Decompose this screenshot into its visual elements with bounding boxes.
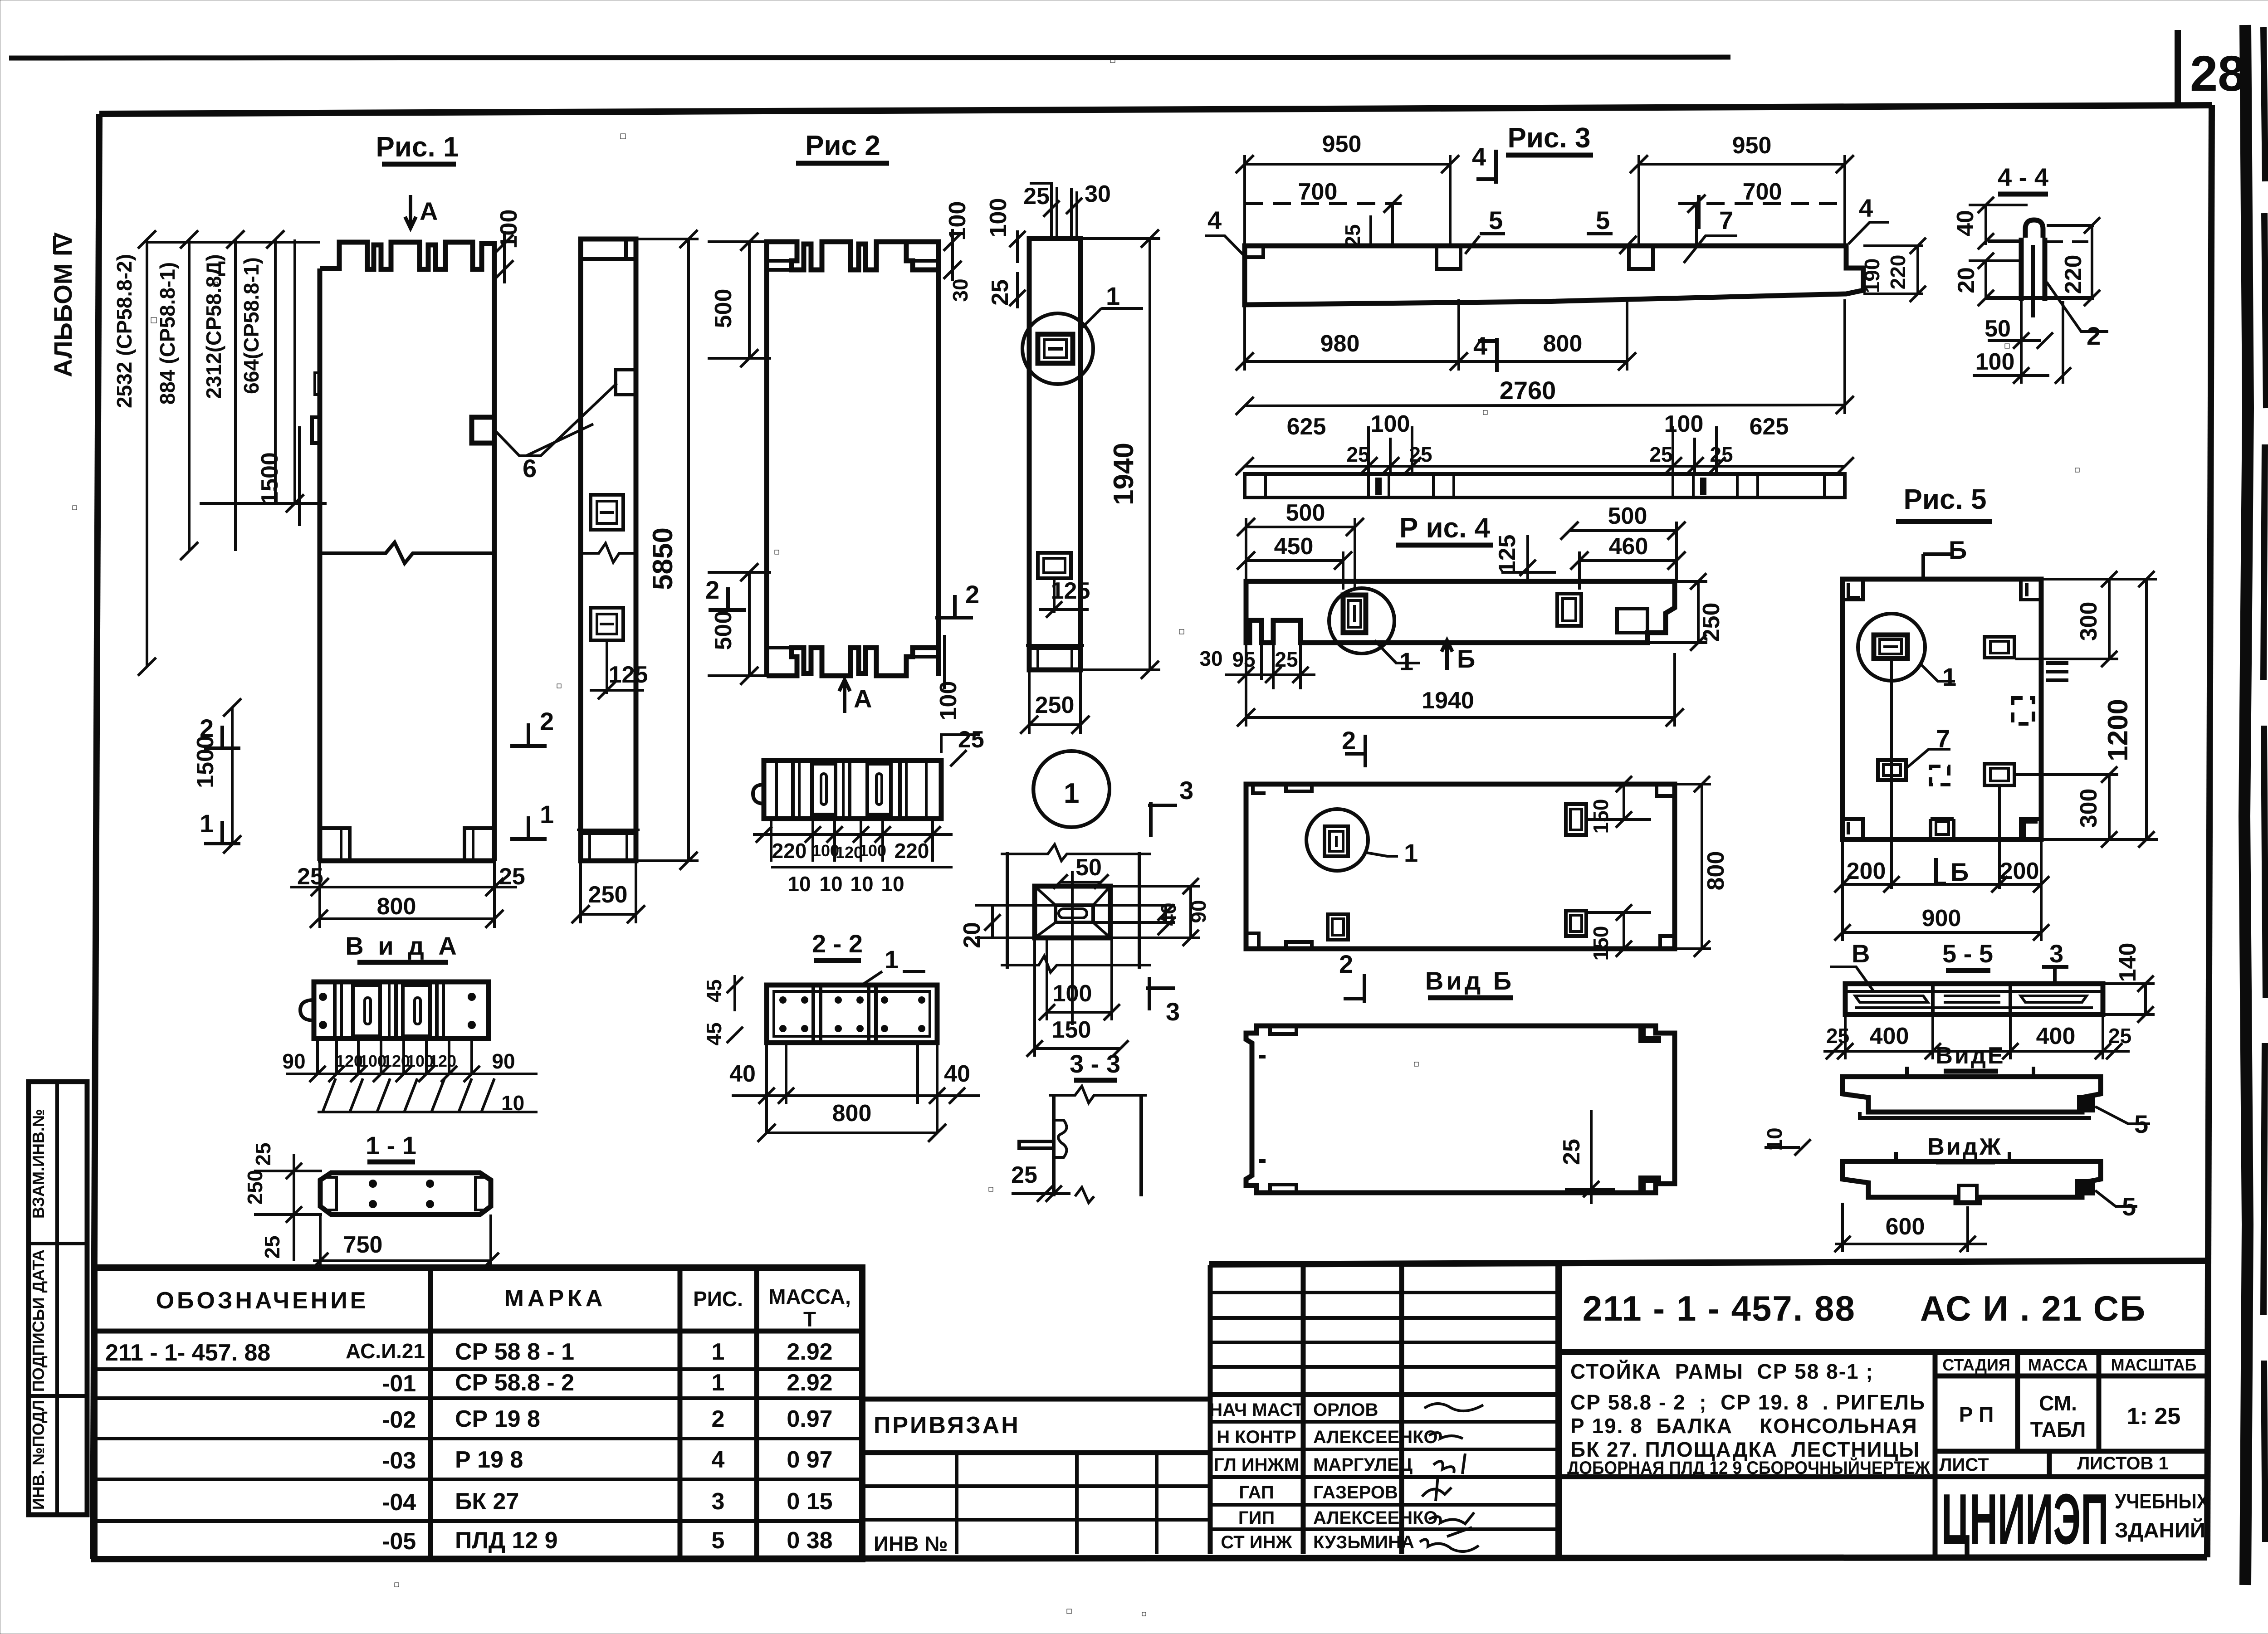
svg-text:Вид Б: Вид Б (1425, 966, 1514, 995)
svg-text:Рис. 5: Рис. 5 (1904, 484, 1987, 515)
vid Zh dim 600 (1834, 1203, 1987, 1252)
svg-text:211 - 1 - 457. 88 АС И .: 211 - 1 - 457. 88 АС И . 21 СБ (1583, 1288, 2146, 1328)
fig2 side circled plate (1022, 313, 1093, 384)
fig2 comb labels 220 100 120 100 220 (772, 839, 929, 863)
svg-text:Рис. 1: Рис. 1 (376, 132, 459, 163)
svg-text:2: 2 (540, 707, 554, 736)
svg-text:220: 220 (894, 839, 929, 863)
svg-text:3: 3 (1179, 776, 1193, 805)
svg-text:45: 45 (702, 1022, 726, 1045)
fig4 plan dim 150 bottom (1586, 904, 1651, 961)
fig2 dim label 25 rotated left of side (987, 272, 1026, 308)
svg-text:400: 400 (1870, 1023, 1909, 1049)
vid A plan detail (300, 982, 489, 1039)
fig1 dim 5850 (636, 230, 699, 870)
svg-text:25: 25 (1649, 443, 1672, 466)
fig1 section arrow A (405, 195, 438, 228)
top scan edge line (9, 57, 1730, 58)
fig5 plate top right (1984, 637, 2014, 658)
fig3 label 5 right with leader (1587, 206, 1637, 254)
fig2 dim label 30 top (1066, 181, 1111, 214)
svg-text:500: 500 (1608, 503, 1647, 529)
svg-text:Н КОНТР: Н КОНТР (1217, 1427, 1296, 1447)
svg-text:3 - 3: 3 - 3 (1070, 1049, 1120, 1078)
svg-text:6: 6 (523, 454, 537, 483)
svg-text:ЦНИИЭП: ЦНИИЭП (1941, 1479, 2109, 1559)
fig3 section mark 4 top middle (1472, 142, 1496, 184)
svg-text:ГИП: ГИП (1238, 1508, 1275, 1528)
fig1 break line (320, 542, 494, 563)
fig3 underside strip (1245, 474, 1845, 498)
svg-text:Б: Б (1950, 858, 1969, 886)
svg-text:25: 25 (958, 727, 984, 753)
fig4 plan plate bottom right (1566, 911, 1586, 936)
fig4 circled plate (1329, 588, 1394, 654)
svg-text:МАРГУЛЕЦ: МАРГУЛЕЦ (1313, 1455, 1413, 1475)
fig2 dim 100 top right (943, 201, 971, 281)
svg-text:40: 40 (729, 1061, 756, 1087)
right scan bar broken (2263, 27, 2266, 1542)
fig4 dim 450 left (1237, 518, 1355, 590)
svg-text:1: 1 (1404, 839, 1418, 867)
svg-text:30: 30 (1085, 181, 1111, 207)
svg-text:140: 140 (2115, 943, 2141, 982)
fig1 dim line 2532 (138, 230, 156, 676)
vid Zh bar (1843, 1152, 2101, 1203)
svg-text:450: 450 (1274, 533, 1314, 560)
fig4 dim 500 right (1560, 503, 1686, 540)
svg-text:МАРКА: МАРКА (504, 1285, 606, 1312)
svg-text:0 15: 0 15 (787, 1488, 832, 1515)
svg-text:ЛИСТОВ 1: ЛИСТОВ 1 (2077, 1454, 2169, 1473)
svg-text:200: 200 (1847, 858, 1886, 884)
fig4 dim 500 left (1237, 500, 1364, 536)
svg-text:2.92: 2.92 (787, 1370, 832, 1396)
fig2 dim 500 upper left (708, 233, 771, 367)
svg-text:3: 3 (1166, 997, 1180, 1026)
svg-text:800: 800 (1543, 331, 1583, 357)
fig1 dim 250 side bottom (572, 861, 645, 923)
svg-text:РИС.: РИС. (693, 1287, 743, 1311)
svg-text:664(СР58.8-1): 664(СР58.8-1) (240, 257, 263, 394)
fig4 section mark 2 upper (1342, 726, 1365, 767)
fig4 plan circled plate 1 (1306, 809, 1418, 871)
section 4-4 label 2 leader (2047, 282, 2108, 350)
svg-text:1: 1 (1399, 647, 1413, 676)
inv sub table (865, 1453, 1210, 1556)
section 4-4 hook loop (2025, 220, 2043, 238)
svg-text:4: 4 (712, 1447, 725, 1473)
section 1-1 plan (320, 1173, 491, 1215)
fig4 dims 30 95 25 below (1199, 643, 1315, 689)
svg-text:25: 25 (1346, 443, 1369, 466)
svg-text:ТАБЛ: ТАБЛ (2030, 1418, 2086, 1441)
plate detail dim 150 (1026, 938, 1129, 1057)
svg-text:100: 100 (1975, 349, 2015, 375)
svg-text:220: 220 (2060, 255, 2087, 294)
svg-text:2: 2 (712, 1406, 725, 1432)
svg-text:2: 2 (1339, 950, 1353, 978)
fig1 title Ris.1 (376, 132, 459, 164)
fig2 dim 125 (1039, 578, 1090, 618)
svg-text:25: 25 (987, 279, 1013, 306)
section 5-5 label 3 (2042, 939, 2068, 983)
section mark 3 upper (1148, 776, 1193, 837)
svg-text:5: 5 (1596, 206, 1610, 234)
svg-text:20: 20 (1953, 267, 1980, 293)
svg-text:НАЧ МАСТ: НАЧ МАСТ (1209, 1400, 1303, 1420)
svg-text:СР 58 8 - 1: СР 58 8 - 1 (455, 1339, 574, 1365)
fig1 dim line 884 (180, 230, 198, 560)
fig1 section mark 1 left (200, 809, 240, 844)
section 4-4 dim 220 (2060, 217, 2100, 306)
svg-text:Р П: Р П (1959, 1403, 1994, 1426)
svg-text:ПОДПИСЬИ ДАТА: ПОДПИСЬИ ДАТА (29, 1249, 48, 1392)
svg-text:5 - 5: 5 - 5 (1942, 939, 1993, 968)
svg-text:28: 28 (2190, 46, 2245, 102)
fig5 dim 300 bottom (2015, 766, 2158, 848)
section 5-5 bottom dims 25 400 400 25 (1823, 1015, 2131, 1059)
svg-text:100: 100 (935, 681, 962, 721)
fig4 section mark 2 lower (1339, 950, 1364, 1003)
svg-text:2: 2 (2087, 322, 2101, 350)
fig1 right edge notch (472, 417, 494, 443)
svg-text:Р 19 8: Р 19 8 (455, 1447, 523, 1473)
section mark 3 lower (1146, 977, 1180, 1026)
fig1 front view column outline with castellated top (320, 242, 494, 861)
fig1 left edge tab (312, 417, 320, 443)
svg-text:40: 40 (944, 1061, 970, 1087)
fig3 label 4 left end (1205, 206, 1245, 256)
parts table row 1 (105, 1339, 833, 1366)
parts table frame (94, 1268, 862, 1559)
fig4 plan box (1246, 784, 1675, 949)
svg-text:1500: 1500 (192, 736, 219, 788)
fig4 plan dim 150 top (1586, 776, 1651, 834)
svg-text:Б: Б (1457, 644, 1475, 673)
fig5 section mark B top (1923, 536, 1967, 579)
fig2 dim 100 bottom right (935, 635, 962, 720)
parts table row 4 (382, 1447, 833, 1474)
section 5-5 label V (1830, 939, 1873, 991)
svg-text:980: 980 (1320, 331, 1360, 357)
svg-text:-04: -04 (382, 1489, 416, 1516)
fig2 side view top hook lines 30 (1071, 188, 1077, 239)
fig1 left edge small tick (315, 373, 320, 395)
section 4-4 dim 100 (1973, 301, 2071, 384)
fig1 side view column (581, 239, 636, 861)
svg-text:625: 625 (1750, 414, 1789, 440)
svg-text:5: 5 (1489, 206, 1503, 234)
fig2 front bottom corner marks (767, 648, 938, 657)
svg-text:1200: 1200 (2102, 699, 2134, 761)
fig4 beam outline (1246, 581, 1675, 643)
svg-text:ПЛД 12 9: ПЛД 12 9 (455, 1527, 558, 1554)
circled detail 1 large (1033, 751, 1110, 827)
title block top line (1209, 1261, 2207, 1264)
fig4 beam inner bottom line (1300, 641, 1647, 644)
fig4 dim 1940 (1237, 653, 1684, 727)
svg-text:ЛИСТ: ЛИСТ (1939, 1455, 1989, 1475)
fig4 dim 250 right (1647, 573, 1725, 651)
fig2 side view top hook lines 25 (1030, 183, 1057, 239)
stadia massa masshtab grid (1559, 1352, 2207, 1477)
svg-text:1: 1 (1064, 778, 1079, 809)
personnel signatures (1420, 1404, 1483, 1551)
section 4-4 dim 40 (1952, 197, 2028, 249)
fig1 front view bottom edge (320, 858, 494, 863)
svg-text:150: 150 (1589, 799, 1613, 834)
svg-text:ГЛ ИНЖМ: ГЛ ИНЖМ (1214, 1455, 1299, 1475)
fig2 section mark 2 right (935, 580, 979, 618)
fig1 dim 100 top right (495, 210, 522, 283)
svg-text:A: A (420, 197, 438, 225)
fig3 title Ris.3 (1506, 122, 1593, 155)
svg-text:СР 58.8 - 2 ; СР 19. 8 . РИ: СР 58.8 - 2 ; СР 19. 8 . РИГЕЛЬ (1570, 1390, 1926, 1414)
svg-text:1: 1 (540, 800, 554, 829)
fig3 dim row 980 4 800 (1236, 299, 1636, 371)
svg-text:1940: 1940 (1422, 688, 1474, 714)
svg-text:1: 1 (1106, 282, 1120, 310)
plate detail plan (1035, 871, 1110, 1025)
svg-text:50: 50 (1984, 316, 2011, 342)
svg-text:25: 25 (1011, 1162, 1037, 1188)
section 2-2 dim 45 upper (702, 975, 743, 1011)
section 2-2 title (812, 929, 863, 961)
fig2 dim 250 bottom (1020, 670, 1090, 734)
svg-text:600: 600 (1886, 1214, 1925, 1240)
svg-text:460: 460 (1609, 533, 1648, 560)
fig2 dim 1940 (1080, 229, 1160, 679)
vid A hatch strokes (323, 1078, 494, 1111)
section 3-3 detail (1019, 1086, 1147, 1203)
section 5-5 dim 140 (2103, 943, 2155, 1023)
svg-text:ВидЖ: ВидЖ (1927, 1134, 2003, 1160)
svg-text:25: 25 (2108, 1024, 2131, 1048)
svg-text:100: 100 (944, 201, 971, 241)
fig4 title Ris.4 (1396, 512, 1493, 545)
fig1 side view embedded plate lower (591, 608, 623, 640)
fig2 front view outline castellated top and bottom (767, 242, 938, 676)
svg-text:25: 25 (1023, 183, 1050, 210)
fig3 beam outline (1245, 246, 1863, 305)
section 4-4 title (1998, 163, 2048, 194)
svg-text:Р ис. 4: Р ис. 4 (1399, 512, 1491, 544)
svg-text:3: 3 (2049, 939, 2063, 968)
fig5 plate bottom right (1984, 764, 2014, 785)
svg-text:0 97: 0 97 (787, 1447, 832, 1473)
svg-text:2 - 2: 2 - 2 (812, 929, 863, 958)
fig1 top dim tie line (147, 241, 320, 244)
vid A comb extension lines (318, 1039, 472, 1074)
svg-text:100: 100 (1664, 411, 1704, 437)
svg-text:1500: 1500 (257, 452, 283, 505)
svg-text:В и д А: В и д А (345, 932, 460, 960)
fig3 top pad left (1437, 246, 1461, 269)
section 2-2 label 1 (862, 945, 925, 985)
svg-text:90: 90 (492, 1049, 515, 1073)
svg-text:2.92: 2.92 (787, 1339, 832, 1365)
svg-text:700: 700 (1298, 179, 1338, 205)
svg-text:25: 25 (1275, 648, 1298, 671)
svg-text:30: 30 (948, 278, 972, 302)
svg-text:25: 25 (260, 1235, 284, 1258)
fig5 section mark B bottom (1936, 858, 1969, 886)
fig2 side view column (1029, 239, 1080, 670)
fig2 label 1 with leader (1080, 282, 1143, 329)
svg-text:ГАЗЕРОВ: ГАЗЕРОВ (1313, 1483, 1398, 1502)
svg-text:3: 3 (712, 1488, 725, 1515)
vid A title (345, 932, 460, 962)
fig5 dim 1200 (2102, 571, 2155, 848)
section 4-4 dim 50 (1984, 316, 2053, 349)
job title text (1567, 1360, 1931, 1478)
svg-text:10: 10 (850, 872, 873, 896)
svg-text:СТОЙКА РАМЫ СР 58 8-1 ;: СТОЙКА РАМЫ СР 58 8-1 ; (1570, 1360, 1874, 1383)
fig1 section mark 1 right (510, 800, 554, 839)
fig1 dim line 25s (290, 878, 517, 896)
svg-text:190: 190 (1860, 259, 1884, 293)
svg-text:ВЗАМ.ИНВ.№: ВЗАМ.ИНВ.№ (29, 1109, 48, 1219)
svg-text:25: 25 (1826, 1024, 1849, 1048)
fig2 dim label 100 rotated left of side (985, 198, 1026, 263)
vid B box (1246, 1026, 1675, 1193)
section 2-2 box (767, 985, 937, 1043)
svg-text:СР 58.8 - 2: СР 58.8 - 2 (455, 1370, 574, 1396)
svg-text:В: В (1852, 939, 1870, 968)
fig2 comb dim line row (753, 819, 953, 862)
svg-text:Рис. 3: Рис. 3 (1508, 122, 1591, 154)
fig1 side view break tick (581, 543, 636, 562)
svg-text:СТАДИЯ: СТАДИЯ (1942, 1356, 2010, 1374)
svg-text:100: 100 (1371, 411, 1410, 437)
svg-text:Т: Т (803, 1307, 816, 1331)
svg-text:100: 100 (1053, 980, 1092, 1007)
fig3 section mark 4 mid (1473, 332, 1497, 372)
fig2 side footing (1026, 645, 1084, 670)
svg-text:ИНВ. №ПОДЛ: ИНВ. №ПОДЛ (29, 1400, 48, 1510)
svg-text:25: 25 (251, 1142, 275, 1166)
section 5-5 bar (1845, 984, 2103, 1015)
svg-text:СМ.: СМ. (2039, 1391, 2077, 1415)
svg-text:АЛЕКСЕЕНКО: АЛЕКСЕЕНКО (1313, 1427, 1438, 1447)
parts table row 3 (382, 1406, 833, 1433)
svg-text:1: 1 (885, 945, 899, 974)
fig3 beam left top notch (1246, 246, 1263, 257)
section 2-2 dim 45 lower (702, 1022, 743, 1045)
svg-text:1940: 1940 (1108, 443, 1139, 505)
svg-text:2760: 2760 (1500, 376, 1556, 405)
plate detail guides (1001, 844, 1151, 972)
svg-text:1: 1 (1942, 663, 1956, 691)
svg-text:45: 45 (702, 979, 726, 1002)
section 3-3 title (1070, 1049, 1120, 1080)
fig4 plate right (1557, 594, 1581, 626)
personnel table (1210, 1265, 1559, 1554)
fig5 dim 200 200 900 (1834, 658, 2049, 941)
svg-text:30: 30 (1199, 647, 1222, 670)
fig3 underside dim labels 625 100 (1236, 411, 1854, 475)
plate detail dim 40 (1093, 902, 1180, 935)
fig3 label 5 left with leader (1465, 206, 1505, 254)
list row (1939, 1451, 2168, 1477)
fig5 weld mark (2046, 663, 2068, 680)
svg-text:ИНВ №: ИНВ № (874, 1532, 948, 1556)
svg-text:220: 220 (1886, 255, 1910, 290)
fig5 label 7 leader (1905, 724, 1950, 769)
svg-text:300: 300 (2076, 602, 2102, 641)
svg-text:0.97: 0.97 (787, 1406, 832, 1432)
fig2 title Ris 2 (796, 130, 889, 163)
svg-text:125: 125 (1051, 578, 1090, 604)
svg-text:884 (СР58.8-1): 884 (СР58.8-1) (156, 262, 179, 405)
svg-text:ЗДАНИЙ: ЗДАНИЙ (2115, 1518, 2205, 1542)
svg-text:500: 500 (710, 289, 737, 328)
svg-text:Рис 2: Рис 2 (805, 130, 880, 161)
svg-text:950: 950 (1732, 132, 1772, 159)
vid E label 5 (2095, 1107, 2150, 1138)
svg-text:ПРИВЯЗАН: ПРИВЯЗАН (874, 1412, 1020, 1439)
svg-text:УЧЕБНЫХ: УЧЕБНЫХ (2115, 1489, 2209, 1513)
fig4 plan plate bottom left (1328, 914, 1348, 940)
svg-text:400: 400 (2036, 1023, 2076, 1049)
svg-text:ОБОЗНАЧЕНИЕ: ОБОЗНАЧЕНИЕ (156, 1288, 369, 1314)
fig5 title Ris.5 (1896, 484, 1992, 522)
svg-text:211 - 1- 457. 88: 211 - 1- 457. 88 (105, 1340, 270, 1366)
fig2 comb plan detail (753, 761, 941, 819)
section 2-2 dim 40 left right (729, 1043, 980, 1133)
fig1 dim label 1500 lower (192, 698, 241, 854)
svg-text:2: 2 (965, 580, 979, 609)
svg-text:АЛЬБОМ IV: АЛЬБОМ IV (49, 232, 77, 377)
svg-text:750: 750 (343, 1232, 383, 1258)
plate detail dim 20 (959, 905, 1057, 948)
fig4 label 1 leader (1374, 640, 1420, 676)
svg-text:4: 4 (1473, 332, 1487, 360)
vid E bar (1843, 1067, 2101, 1118)
svg-text:1: 1 (200, 809, 214, 838)
svg-text:800: 800 (377, 893, 416, 920)
svg-text:800: 800 (832, 1100, 872, 1127)
svg-text:100: 100 (859, 841, 886, 860)
svg-text:КУЗЬМИНА: КУЗЬМИНА (1313, 1532, 1414, 1552)
fig3 label 4 right end (1848, 194, 1889, 244)
fig5 dim 300 top (2015, 571, 2157, 667)
svg-text:-05: -05 (382, 1528, 416, 1555)
svg-text:2: 2 (200, 714, 214, 742)
fig3 top pad right (1629, 246, 1653, 269)
svg-text:150: 150 (1052, 1017, 1091, 1043)
svg-text:250: 250 (588, 882, 628, 908)
svg-text:0 38: 0 38 (787, 1527, 832, 1554)
svg-text:2: 2 (705, 576, 719, 604)
plate detail dim 50 (1053, 854, 1109, 889)
svg-text:1: 1 (712, 1370, 725, 1396)
section 4-4 horizontal lines (1986, 225, 2094, 298)
fig4 dim 460 right (1570, 522, 1686, 590)
svg-text:100: 100 (985, 198, 1012, 238)
svg-text:МАССА: МАССА (2028, 1356, 2088, 1374)
vid A dim line row (286, 1066, 538, 1082)
svg-text:1: 1 (712, 1339, 725, 1365)
fig1 dim 125 side (590, 640, 648, 699)
fig1 dim 800 (310, 861, 503, 928)
svg-text:ГАП: ГАП (1239, 1483, 1274, 1502)
svg-text:СР 19 8: СР 19 8 (455, 1406, 540, 1432)
left sidebar stamp column (29, 1082, 87, 1515)
svg-text:40: 40 (1952, 210, 1979, 236)
fig1 dim line 2312 (226, 230, 244, 551)
